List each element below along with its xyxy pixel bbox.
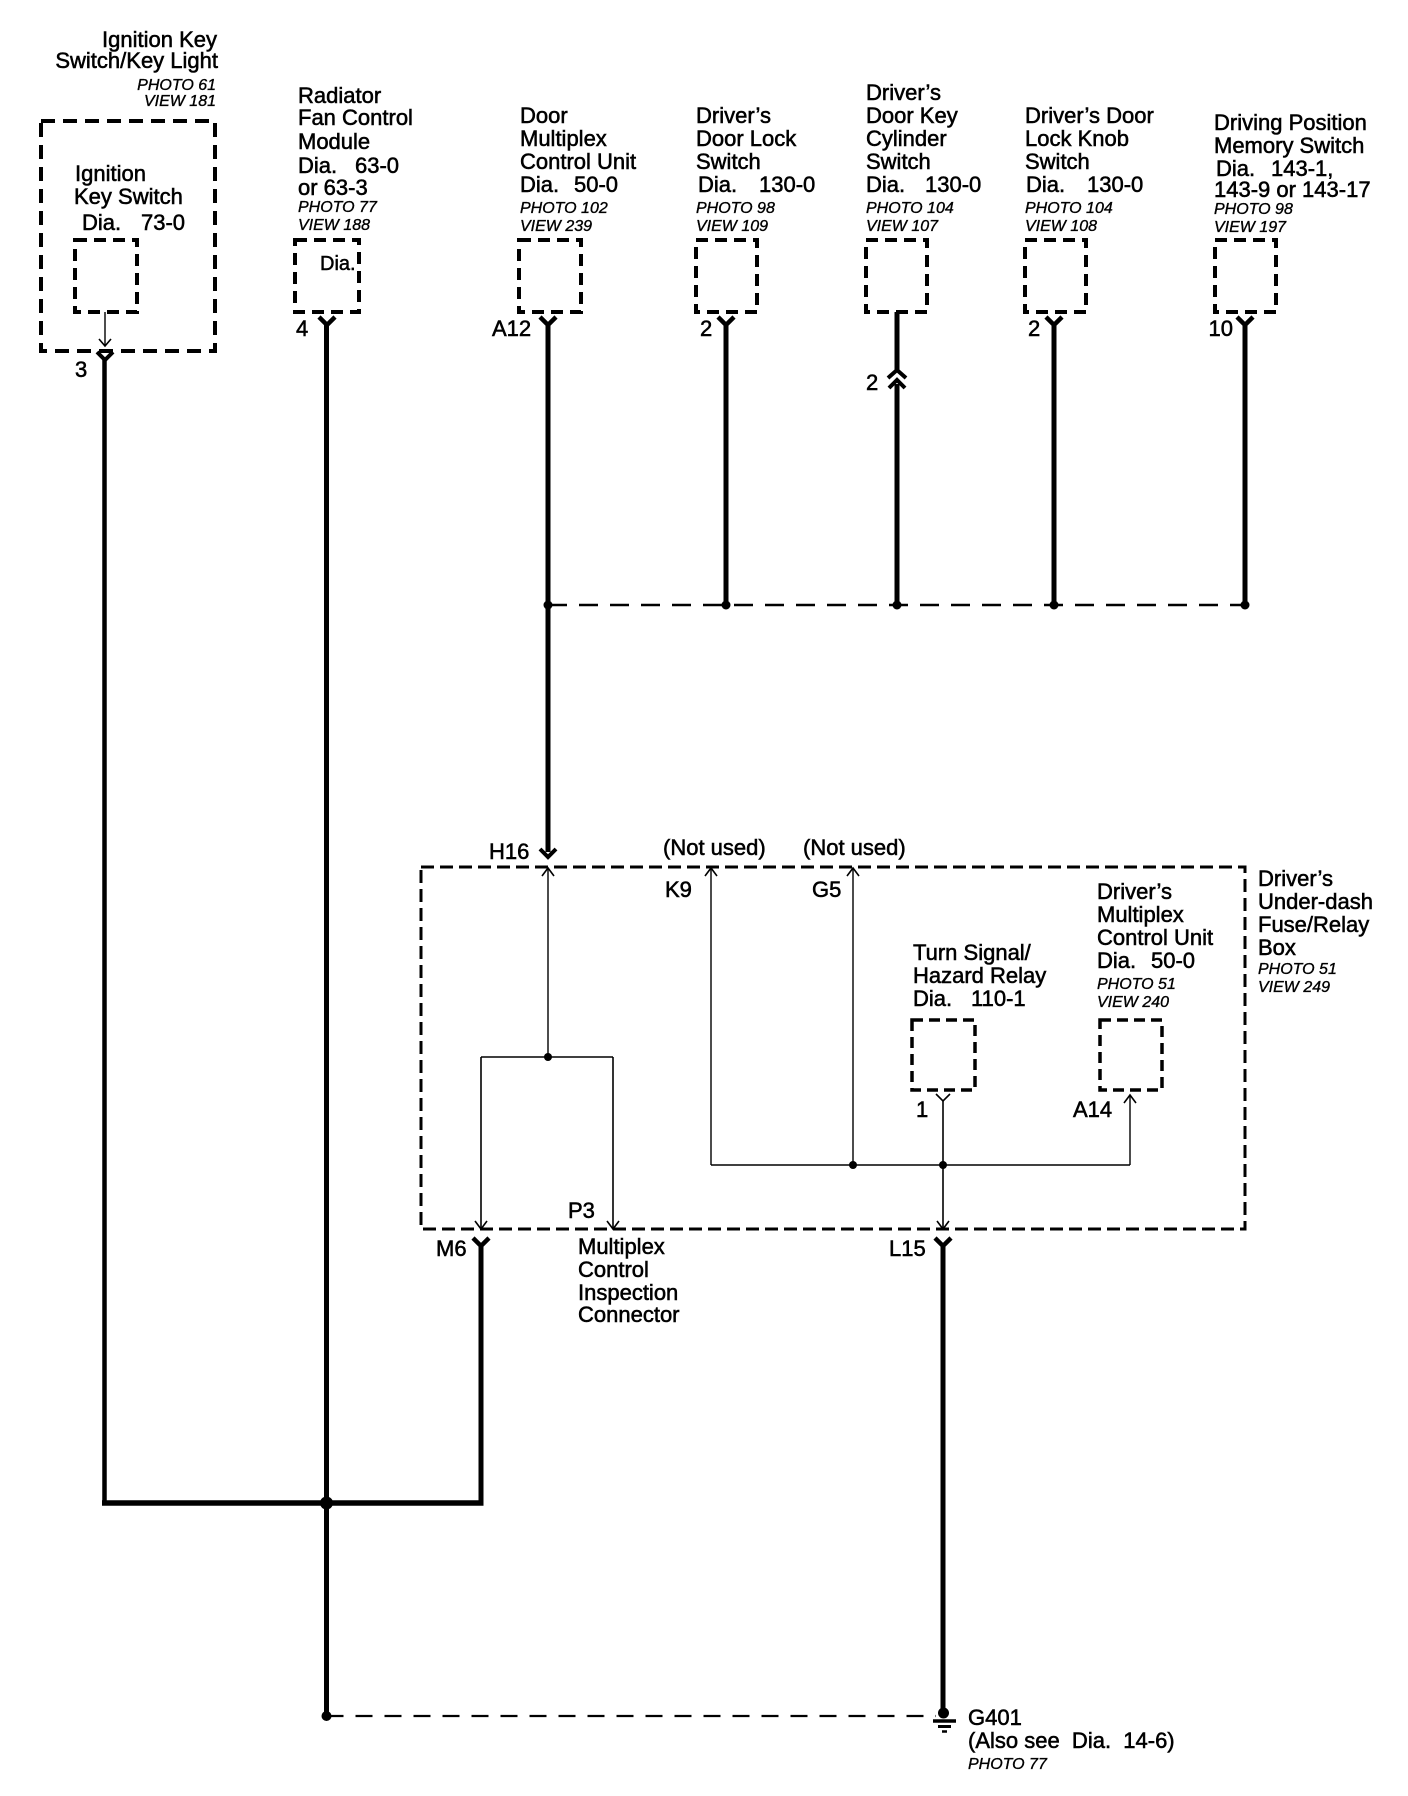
svg-text:Dia.: Dia. [866, 172, 905, 197]
label: K9 [665, 877, 692, 902]
wire: door lock switch pin 2 down to bus [724, 325, 729, 605]
pin 3 connector chevron [97, 352, 113, 360]
junction node on bus at memory switch wire [1241, 601, 1250, 610]
svg-text:Hazard Relay: Hazard Relay [913, 963, 1046, 988]
pin A12 connector chevron [540, 317, 556, 325]
driver's door key cylinder switch connector box [866, 240, 927, 312]
svg-text:VIEW 240: VIEW 240 [1097, 994, 1169, 1011]
svg-text:130-0: 130-0 [925, 172, 981, 197]
svg-text:PHOTO 98: PHOTO 98 [1214, 201, 1293, 218]
svg-text:A12: A12 [492, 316, 531, 341]
label: G5 [812, 877, 841, 902]
turn signal/hazard relay box [912, 1020, 975, 1090]
svg-text:Memory Switch: Memory Switch [1214, 133, 1364, 158]
svg-text:4: 4 [296, 316, 308, 341]
svg-text:50-0: 50-0 [1151, 948, 1195, 973]
pin 3 label [75, 357, 87, 382]
pin 2 label (lock knob switch) [1028, 316, 1040, 341]
svg-text:G5: G5 [812, 877, 841, 902]
label: (Not used) over K9 [663, 835, 766, 860]
label: P3 [568, 1198, 595, 1223]
label: Multiplex Control Inspection Connector [578, 1234, 680, 1327]
dashed bus wire joining switch wires [548, 604, 1245, 607]
door multiplex control unit connector box [519, 240, 581, 312]
svg-text:VIEW 181: VIEW 181 [144, 93, 216, 110]
svg-text:Cylinder: Cylinder [866, 126, 947, 151]
ignition key switch connector box [75, 240, 137, 312]
svg-text:VIEW 109: VIEW 109 [696, 218, 768, 235]
internal lead to A14 with up arrow [1124, 1095, 1136, 1165]
svg-text:Control: Control [578, 1257, 649, 1282]
svg-text:G401: G401 [968, 1705, 1022, 1730]
L15 connector chevron [935, 1238, 951, 1246]
svg-text:Driver’s: Driver’s [1097, 879, 1172, 904]
wire: key cylinder switch lower segment to bus [895, 384, 900, 605]
svg-text:H16: H16 [489, 839, 529, 864]
driving position memory switch connector box [1215, 240, 1276, 312]
svg-text:PHOTO 104: PHOTO 104 [866, 200, 954, 217]
label: L15 [889, 1236, 926, 1261]
ignition key switch outer dashed box [41, 121, 215, 351]
svg-text:K9: K9 [665, 877, 692, 902]
internal lead to P3 with down arrow [607, 1057, 619, 1229]
pin 4 connector chevron [319, 317, 335, 325]
svg-text:Switch: Switch [696, 149, 761, 174]
label: Door Multiplex Control Unit [520, 103, 636, 235]
svg-text:Control Unit: Control Unit [520, 149, 636, 174]
svg-text:Ignition: Ignition [75, 161, 146, 186]
svg-text:1: 1 [916, 1097, 928, 1122]
pin 1 label [916, 1097, 928, 1122]
svg-text:Driver’s Door: Driver’s Door [1025, 103, 1154, 128]
svg-text:PHOTO 77: PHOTO 77 [968, 1756, 1048, 1773]
pin 2 label (door lock switch) [700, 316, 712, 341]
svg-text:(Not used): (Not used) [803, 835, 906, 860]
svg-text:2: 2 [866, 370, 878, 395]
svg-text:PHOTO 104: PHOTO 104 [1025, 200, 1113, 217]
junction node on internal bus at G5 [849, 1161, 857, 1169]
svg-text:Lock Knob: Lock Knob [1025, 126, 1129, 151]
internal bus horizontal wire [711, 1164, 1130, 1166]
svg-text:Dia.: Dia. [82, 210, 121, 235]
svg-text:Under-dash: Under-dash [1258, 889, 1373, 914]
svg-text:110-1: 110-1 [971, 986, 1026, 1011]
svg-text:PHOTO 98: PHOTO 98 [696, 200, 775, 217]
svg-text:Dia.: Dia. [1097, 948, 1136, 973]
dashed wire to ground G401 [327, 1715, 937, 1717]
svg-text:Door Lock: Door Lock [696, 126, 797, 151]
wire: key cylinder switch upper segment [895, 312, 900, 371]
label: Driver's Door Lock Knob Switch [1025, 103, 1154, 235]
svg-text:Driver’s: Driver’s [696, 103, 771, 128]
svg-text:VIEW 249: VIEW 249 [1258, 979, 1330, 996]
junction node on bus at A12 wire [544, 601, 553, 610]
pin 2 connector chevron (door lock switch) [718, 317, 734, 325]
label: Driver's Under-dash Fuse/Relay Box [1258, 866, 1373, 996]
svg-text:A14: A14 [1073, 1097, 1112, 1122]
wire: ignition key switch pin 3 down [102, 360, 107, 1505]
label: Ignition Key Switch Dia. 73-0 [74, 161, 185, 235]
svg-text:Module: Module [298, 129, 370, 154]
svg-text:3: 3 [75, 357, 87, 382]
junction node on bus at lock knob wire [1050, 601, 1059, 610]
pin 1 thin chevron [936, 1094, 950, 1101]
radiator fan control module connector box [295, 240, 359, 312]
svg-text:Fuse/Relay: Fuse/Relay [1258, 912, 1369, 937]
junction node on internal bus at relay lead [939, 1161, 947, 1169]
internal connector branch horizontal [481, 1056, 613, 1058]
label: M6 [436, 1236, 467, 1261]
M6 connector chevron [473, 1238, 489, 1246]
driver's multiplex control unit connector box (A14) [1100, 1020, 1162, 1090]
svg-text:Fan Control: Fan Control [298, 105, 413, 130]
svg-text:M6: M6 [436, 1236, 467, 1261]
svg-text:PHOTO 77: PHOTO 77 [298, 199, 378, 216]
wire: door multiplex A12 down to H16 [546, 325, 551, 852]
svg-text:VIEW 188: VIEW 188 [298, 217, 370, 234]
svg-text:Multiplex: Multiplex [578, 1234, 665, 1259]
svg-text:Driving Position: Driving Position [1214, 110, 1367, 135]
svg-text:(Also see Dia. 14-6): (Also see Dia. 14-6) [968, 1728, 1175, 1753]
driver's under-dash fuse/relay box (dashed) [421, 867, 1245, 1229]
junction node at radiator fan wire on horizontal run [320, 1497, 333, 1510]
wire: horizontal run joining pin 3, radiator fan and M6 wires [102, 1500, 484, 1506]
wire: lock knob switch pin 2 down to bus [1052, 325, 1057, 605]
svg-text:Switch/Key Light: Switch/Key Light [55, 48, 218, 73]
svg-text:(Not used): (Not used) [663, 835, 766, 860]
label: Radiator Fan Control Module [298, 83, 413, 234]
svg-text:Control Unit: Control Unit [1097, 925, 1213, 950]
pin 10 connector chevron [1237, 317, 1253, 325]
label: Driver's Door Lock Switch [696, 103, 815, 235]
wire: memory switch pin 10 down to bus [1243, 325, 1248, 605]
svg-text:L15: L15 [889, 1236, 926, 1261]
svg-text:Connector: Connector [578, 1302, 680, 1327]
svg-text:Multiplex: Multiplex [1097, 902, 1184, 927]
svg-text:Driver’s: Driver’s [866, 80, 941, 105]
wire: M6 down to junction with pin 3 wire [479, 1246, 484, 1506]
svg-text:VIEW 239: VIEW 239 [520, 218, 592, 235]
wire: L15 down to ground G401 [941, 1246, 946, 1711]
label: G401 ground [968, 1705, 1175, 1773]
svg-text:PHOTO 51: PHOTO 51 [1258, 961, 1337, 978]
svg-text:10: 10 [1209, 316, 1233, 341]
internal lead from H16 with up arrow [542, 868, 554, 1057]
junction node at radiator fan wire on ground line [322, 1711, 332, 1721]
svg-text:2: 2 [1028, 316, 1040, 341]
label: A14 [1073, 1097, 1112, 1122]
svg-text:VIEW 107: VIEW 107 [866, 218, 939, 235]
junction node on bus at key cylinder wire [893, 601, 902, 610]
label: Driver's Multiplex Control Unit (in box) [1097, 879, 1213, 1011]
pin 2 connector chevron (lock knob switch) [1046, 317, 1062, 325]
pin A12 label [492, 316, 531, 341]
label: H16 [489, 839, 529, 864]
svg-text:P3: P3 [568, 1198, 595, 1223]
svg-text:or 63-3: or 63-3 [298, 175, 368, 200]
svg-text:2: 2 [700, 316, 712, 341]
pin 2 label (key cylinder switch) [866, 370, 878, 395]
svg-text:Switch: Switch [866, 149, 931, 174]
junction node inside box on H16 lead [544, 1053, 552, 1061]
wire: radiator fan module pin 4 down to ground line [324, 325, 329, 1716]
svg-text:Multiplex: Multiplex [520, 126, 607, 151]
pin 4 label [296, 316, 308, 341]
label: Driving Position Memory Switch [1214, 110, 1371, 236]
svg-text:Dia.: Dia. [913, 986, 952, 1011]
junction node on bus at door lock switch wire [722, 601, 731, 610]
svg-text:Turn Signal/: Turn Signal/ [913, 940, 1032, 965]
svg-text:Driver’s: Driver’s [1258, 866, 1333, 891]
svg-text:50-0: 50-0 [574, 172, 618, 197]
label: Driver's Door Key Cylinder Switch [866, 80, 981, 235]
svg-text:Dia.: Dia. [1026, 172, 1065, 197]
inline connector break symbol (pin 2) [888, 370, 906, 388]
svg-text:VIEW 197: VIEW 197 [1214, 219, 1287, 236]
svg-text:VIEW 108: VIEW 108 [1025, 218, 1097, 235]
svg-text:PHOTO 61: PHOTO 61 [137, 77, 216, 94]
svg-text:130-0: 130-0 [1087, 172, 1143, 197]
driver's door lock switch connector box [696, 240, 757, 312]
label: (Not used) over G5 [803, 835, 906, 860]
svg-text:130-0: 130-0 [759, 172, 815, 197]
svg-text:Door Key: Door Key [866, 103, 958, 128]
svg-text:Door: Door [520, 103, 568, 128]
svg-text:Dia.: Dia. [698, 172, 737, 197]
ignition key switch internal lead with arrow [99, 312, 111, 346]
ground G401 symbol [933, 1708, 956, 1732]
internal lead G5 with up arrow [847, 868, 859, 1165]
svg-text:PHOTO 51: PHOTO 51 [1097, 976, 1176, 993]
label: Ignition Key Switch/Key Light title [55, 27, 218, 110]
svg-text:Dia.: Dia. [520, 172, 559, 197]
driver's door lock knob switch connector box [1025, 240, 1086, 312]
svg-text:Dia.: Dia. [320, 253, 356, 275]
svg-text:Box: Box [1258, 935, 1296, 960]
svg-text:PHOTO 102: PHOTO 102 [520, 200, 608, 217]
internal lead to M6 with down arrow [475, 1057, 487, 1229]
pin 10 label [1209, 316, 1233, 341]
svg-text:73-0: 73-0 [141, 210, 185, 235]
svg-text:143-9 or 143-17: 143-9 or 143-17 [1214, 177, 1371, 202]
internal lead K9 with up arrow [705, 868, 717, 1165]
svg-text:Switch: Switch [1025, 149, 1090, 174]
label: Turn Signal/Hazard Relay [913, 940, 1046, 1011]
svg-text:Key Switch: Key Switch [74, 184, 183, 209]
internal lead from relay pin 1 to L15 with down arrow [937, 1101, 949, 1229]
H16 wire end chevron [540, 849, 556, 857]
